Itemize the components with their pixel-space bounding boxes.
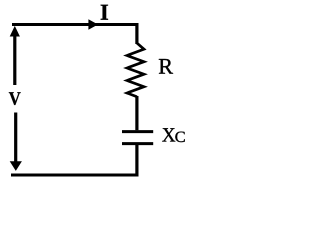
wire right middle [135, 96, 138, 130]
wire right lower [135, 145, 138, 177]
resistor R [127, 43, 144, 97]
label R [159, 59, 173, 74]
wire bottom [11, 174, 139, 177]
capacitor XC bottom plate [122, 142, 153, 145]
label XC [162, 128, 175, 141]
capacitor XC top plate [122, 130, 153, 133]
V arrow up [13, 35, 16, 85]
V arrow down [14, 113, 17, 163]
wire top [12, 23, 139, 26]
wire right upper [135, 23, 138, 44]
current arrowhead I [88, 19, 98, 30]
label I [101, 5, 108, 20]
label V [9, 92, 21, 105]
